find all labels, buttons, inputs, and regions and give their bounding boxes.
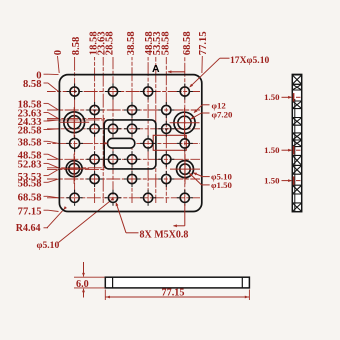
hole (68.58,68.58) [180,193,189,202]
counterbore bottom-left [66,161,82,177]
hole (38.58,18.58) [127,105,136,114]
side view hatch blocks [292,75,301,84]
slot arrow [104,142,108,145]
hole (18.58,28.58) [90,124,99,133]
hole (8.58,68.58) [70,193,79,202]
svg-text:φ1.50: φ1.50 [211,180,232,190]
svg-text:77.15: 77.15 [18,206,42,217]
tap mark triangles [93,110,97,113]
top extension ticks [58,56,60,73]
svg-text:68.58: 68.58 [182,31,193,55]
svg-text:1.50: 1.50 [264,175,280,185]
hole (28.58,8.58) [108,87,117,96]
svg-text:φ5.10: φ5.10 [37,240,60,251]
hole (28.58,48.58) [108,155,117,164]
hole (58.58,18.58) [162,105,171,114]
svg-text:8.58: 8.58 [23,79,42,90]
svg-text:0: 0 [53,50,64,55]
svg-text:38.58: 38.58 [18,138,42,149]
svg-text:φ7.20: φ7.20 [212,110,233,120]
red detail rectangle [153,135,186,150]
horizontal centerlines [47,91,200,93]
svg-text:8X M5X0.8: 8X M5X0.8 [140,229,189,240]
svg-text:52.83: 52.83 [18,160,42,171]
hole (58.58,58.58) [162,174,171,183]
hole (18.58,58.58) [90,174,99,183]
side view outline [292,74,301,211]
hole (58.58,48.58) [162,155,171,164]
hole (48.58,68.58) [144,193,153,202]
hole (58.58,28.58) [162,124,171,133]
main plate outline [59,75,201,212]
hole (28.58,68.58) [108,193,117,202]
counterbore top-right dia12/7.20 [174,112,195,133]
hole (18.58,48.58) [90,155,99,164]
bottom view outline [105,277,249,288]
vertical centerlines [74,57,76,203]
svg-text:1.50: 1.50 [264,145,280,155]
svg-text:38.58: 38.58 [126,31,137,55]
svg-text:6.0: 6.0 [76,279,89,290]
hole (18.58,18.58) [90,105,99,114]
center pocket outline [104,120,156,169]
hole (8.58,8.58) [70,87,79,96]
svg-text:R4.64: R4.64 [16,223,41,234]
counterbore bottom-right dia5.10/1.50 [177,161,194,178]
section arrow A [168,71,185,73]
svg-text:17Xφ5.10: 17Xφ5.10 [230,55,270,66]
hole (38.58,48.58) [127,155,136,164]
hole (28.58,28.58) [108,124,117,133]
hole (48.58,38.58) [144,139,153,148]
svg-text:1.50: 1.50 [264,92,280,102]
hole (48.58,8.58) [144,87,153,96]
svg-text:A: A [152,63,160,75]
svg-text:58.58: 58.58 [160,31,171,55]
hole (38.58,28.58) [127,124,136,133]
hole (8.58,38.58) [70,138,80,148]
bottom view inner lines [112,277,114,288]
hole (68.58,8.58) [180,87,189,96]
center slot [108,138,135,148]
hole (68.58,38.58) [180,139,189,148]
svg-text:77.15: 77.15 [198,31,209,55]
side view inner line [294,99,296,211]
hole (38.58,58.58) [127,174,136,183]
svg-text:28.58: 28.58 [104,31,115,55]
svg-text:68.58: 68.58 [18,193,42,204]
svg-text:58.58: 58.58 [18,179,42,190]
R4.64 leader [44,227,49,229]
counterbore top-left [64,112,85,133]
svg-text:8.58: 8.58 [71,37,82,56]
svg-text:28.58: 28.58 [18,126,42,137]
